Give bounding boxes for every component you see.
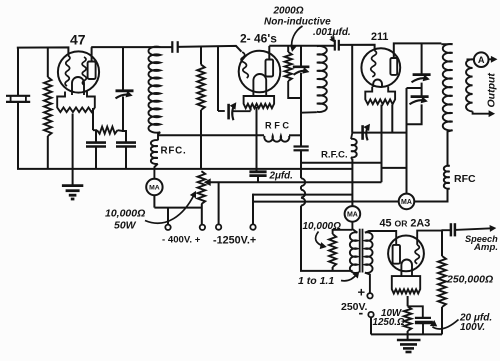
inductor RFC2 (horizontal, grid bus) bbox=[264, 136, 289, 142]
capacitor split-stator upper bbox=[421, 43, 423, 74]
wire x301 down with hops bbox=[300, 150, 302, 178]
wire x406 vertical to MA3 bbox=[406, 88, 408, 194]
wire grid-excitation bus R1 bbox=[158, 134, 264, 136]
crystal X1 (quartz) bbox=[6, 95, 30, 97]
svg-text:A: A bbox=[478, 55, 485, 65]
svg-text:RFC: RFC bbox=[454, 173, 476, 185]
filament dome of V3 bbox=[373, 80, 382, 87]
svg-text:10,000Ω: 10,000Ω bbox=[105, 208, 145, 220]
meter MA1 (osc plate current) bbox=[146, 179, 162, 195]
wire antenna bottom with arrow bbox=[473, 111, 490, 113]
inductor L4 antenna coupling coil bbox=[466, 59, 473, 111]
wire x301 trimmer to grid bus bbox=[300, 73, 302, 147]
screen grid of V1 bbox=[82, 57, 86, 85]
terminal +1250V plus bbox=[250, 224, 255, 229]
wire 46 plate vertical x301 bbox=[300, 46, 302, 67]
capacitor .001 ufd coupling bbox=[334, 40, 336, 51]
transformer T1 core bbox=[359, 229, 361, 273]
grid of V3 bbox=[371, 50, 377, 77]
capacitor 211 grid tuning (variable) bbox=[361, 125, 364, 140]
wire MA3 left lead bbox=[352, 201, 398, 203]
wire split-stator bottom lead bbox=[407, 104, 422, 124]
ground (modulator) bbox=[407, 334, 409, 339]
grid of V2 bbox=[241, 52, 248, 78]
plate of V2 bbox=[266, 60, 274, 77]
inductor L3 final tank coil bbox=[443, 44, 453, 130]
wire 211 cathode bus bbox=[352, 132, 406, 134]
wire MA2 to transformer bbox=[352, 221, 357, 232]
wire plate rail of 47 bbox=[91, 46, 172, 48]
wire riser -1250V minus to bias rail bbox=[218, 182, 220, 224]
resistor 1250 ohm 10w bbox=[404, 306, 412, 331]
wire trimmer branch from plate rail bbox=[122, 47, 124, 91]
wire RFC1 to meter MA1 bbox=[154, 164, 157, 179]
arrow 1to1.1 label to transformer bbox=[341, 274, 357, 281]
wire T1 secondary top to 45 grid bbox=[365, 231, 396, 245]
tube V2 envelope (2-46's) bbox=[239, 51, 281, 93]
wire riser to -400V minus terminal bbox=[167, 208, 169, 225]
terminal -1250V minus bbox=[216, 224, 221, 229]
wire main ground rail bbox=[17, 168, 352, 170]
trimmer capacitor 46 tank bbox=[293, 66, 310, 69]
meter A (antenna ammeter) bbox=[474, 52, 489, 67]
wire MA3 right lead to RFC4 bbox=[414, 189, 447, 202]
wire V3 filament right leg bbox=[391, 105, 393, 133]
capacitor 46 grid (variable) bbox=[218, 110, 225, 112]
inductor L2 buffer tank coil bbox=[317, 46, 327, 112]
capacitor 2ufd (rail bypass) bbox=[256, 107, 258, 171]
svg-text:2000Ω: 2000Ω bbox=[273, 6, 304, 17]
wire left vertical to crystal bbox=[17, 48, 19, 96]
filament dome of V1 bbox=[72, 77, 84, 95]
resistor bleeder 10000 ohm (x201 upper) bbox=[200, 47, 202, 65]
wire split-stator rotor tap bbox=[407, 87, 422, 89]
svg-text:45 OR 2A3: 45 OR 2A3 bbox=[380, 218, 431, 230]
trimmer capacitor osc tank bbox=[116, 89, 134, 92]
svg-text:2- 46's: 2- 46's bbox=[240, 32, 277, 46]
resistor 2000 ohm non-inductive bbox=[287, 46, 289, 52]
plate squiggle of V4 bbox=[415, 245, 419, 264]
terminal +400V plus bbox=[200, 225, 205, 230]
arrow 10000-50w label to potentiometer bbox=[145, 195, 194, 224]
wire rail R3 bbox=[301, 162, 382, 164]
wire crystal to ground rail bbox=[17, 102, 19, 169]
svg-text:.001μfd.: .001μfd. bbox=[313, 27, 351, 38]
capacitor osc coupling (series, top) bbox=[171, 41, 173, 53]
resistor grid leak (47 stage) bbox=[47, 48, 49, 78]
inductor RFC4 (211 plate choke) bbox=[444, 166, 450, 189]
svg-text:100V.: 100V. bbox=[460, 322, 485, 333]
plate of V1 bbox=[88, 62, 96, 80]
svg-text:MA: MA bbox=[149, 184, 160, 191]
svg-text:211: 211 bbox=[371, 31, 388, 43]
svg-text:2μfd.: 2μfd. bbox=[269, 171, 293, 182]
capacitor bypass 2 (node B to rail) bbox=[116, 141, 136, 144]
terminal +250V bbox=[367, 293, 372, 298]
grid of V4 (rectangle element) bbox=[393, 245, 400, 264]
wire RFC3 down to meter MA2 bbox=[351, 159, 353, 207]
svg-text:50W: 50W bbox=[114, 220, 137, 232]
svg-text:Amp.: Amp. bbox=[473, 242, 498, 253]
arrow non-inductive label to resistor bbox=[292, 26, 303, 49]
inductor RFC1 (osc plate choke) bbox=[151, 140, 158, 164]
resistor filament network (horizontal) bbox=[93, 129, 97, 131]
inductor RFC3 (211 grid choke) bbox=[351, 139, 357, 158]
arrow 20ufd label to capacitor bbox=[432, 320, 458, 330]
svg-text:RFC.: RFC. bbox=[161, 146, 187, 157]
wire RFC4 to tank bbox=[448, 130, 453, 166]
wire 46 grid branch from rail bbox=[217, 46, 219, 111]
wire plate rail of 46 bbox=[269, 45, 335, 47]
svg-text:250,000Ω: 250,000Ω bbox=[446, 273, 493, 285]
wire grid rail of 47 (top-left) bbox=[17, 47, 69, 55]
potentiometer 10000 ohm 50w bbox=[198, 171, 206, 204]
svg-text:47: 47 bbox=[70, 31, 86, 47]
wire bias rail R4 (-400 tap) bbox=[208, 181, 382, 183]
tube V1 envelope (type 47) bbox=[58, 51, 99, 92]
capacitor speech amp coupling bbox=[441, 229, 450, 231]
wire -250 terminal to ground bus bbox=[370, 317, 372, 334]
wire plate rail continues to 46 grid drop bbox=[178, 46, 242, 52]
filament dome of V4 bbox=[401, 260, 412, 277]
svg-text:250V.: 250V. bbox=[341, 301, 368, 313]
inductor L1 osc tank coil bbox=[148, 47, 160, 133]
svg-text:MA: MA bbox=[347, 211, 358, 218]
wire RFC3 stubs bbox=[351, 133, 352, 139]
svg-text:R F C: R F C bbox=[265, 120, 289, 130]
plate of V3 bbox=[390, 58, 397, 75]
meter MA3 (211 plate meter) bbox=[399, 194, 415, 210]
wire RFC4 stubs bbox=[448, 188, 450, 190]
wire L1 bottom junction bbox=[158, 132, 160, 140]
tube base of V3 bbox=[365, 87, 395, 105]
resistor 10000 ohm (grid load) bbox=[333, 230, 353, 234]
svg-text:-1250V.+: -1250V.+ bbox=[213, 234, 256, 246]
wire 211 grid tee down x352 bbox=[351, 45, 353, 133]
svg-text:MA: MA bbox=[401, 199, 412, 206]
svg-text:R.F.C.: R.F.C. bbox=[321, 149, 348, 160]
wire trimmer to node B bbox=[123, 97, 126, 143]
resistor 250000 ohm bbox=[441, 230, 443, 256]
wire rail R6 bbox=[253, 201, 352, 203]
terminal -250V bbox=[368, 312, 373, 317]
arrow to speech amp bbox=[455, 228, 492, 230]
capacitor series audio (x301) bbox=[294, 145, 309, 147]
tube base of V2 bbox=[244, 96, 275, 108]
svg-text:1250.Ω: 1250.Ω bbox=[373, 317, 406, 328]
arrow output top bbox=[489, 58, 493, 60]
svg-text:10,000Ω: 10,000Ω bbox=[303, 221, 342, 232]
filament dome of V2 bbox=[253, 74, 266, 96]
grid of V1 bbox=[65, 56, 70, 87]
tube base of V1 bbox=[57, 92, 95, 113]
transformer T1 primary winding bbox=[350, 232, 358, 273]
terminal -400V minus bbox=[165, 225, 170, 230]
tube V3 envelope (211) bbox=[361, 48, 400, 87]
tube V4 envelope (45 or 2A3) bbox=[388, 236, 424, 272]
arrow 10000 label to resistor bbox=[316, 232, 324, 247]
tube base of V4 bbox=[392, 276, 420, 293]
wire riser +1250V plus bbox=[252, 194, 254, 225]
capacitor 20ufd 100v bbox=[408, 306, 423, 317]
wire cathode ground bus bbox=[371, 333, 442, 335]
svg-text:- 400V. +: - 400V. + bbox=[162, 234, 201, 245]
wire L2 bottom to x301 bbox=[301, 111, 317, 114]
wire 211 grid line bbox=[339, 45, 375, 51]
wire V2 grid leg bbox=[250, 106, 252, 111]
wire T1 secondary bottom to +250 bbox=[365, 273, 370, 293]
wire V4 filament tap to bias resistor bbox=[407, 296, 409, 306]
capacitor split-stator lower bbox=[421, 83, 423, 97]
ground (oscillator) bbox=[62, 184, 83, 187]
wire MA1 to -400 bus bbox=[153, 195, 155, 207]
wire V3 filament left leg (long) bbox=[381, 105, 383, 183]
svg-text:1 to 1.1: 1 to 1.1 bbox=[298, 275, 334, 287]
svg-text:+: + bbox=[358, 284, 366, 299]
wire antenna top to ammeter bbox=[467, 58, 474, 60]
meter MA2 (211 grid meter) bbox=[345, 206, 361, 222]
capacitor bypass 1 (node A to rail) bbox=[95, 130, 97, 142]
svg-text:-: - bbox=[359, 305, 364, 321]
svg-text:Output: Output bbox=[486, 73, 498, 108]
transformer T1 secondary winding bbox=[365, 232, 373, 273]
arrow .001 label to capacitor bbox=[331, 37, 334, 41]
wire rail R5 (+1250) bbox=[253, 194, 352, 196]
wire V1 cathode leg down bbox=[92, 108, 94, 130]
wire V1 base center leg to ground bbox=[72, 114, 74, 186]
